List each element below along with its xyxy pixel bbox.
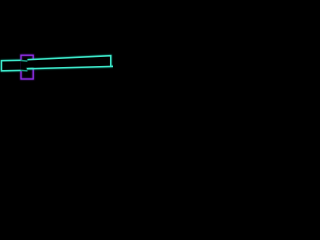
right track segment bottom edge with tail to image border	[27, 66, 113, 68]
right track segment top edge and right end cap (bright teal stroke)	[28, 56, 111, 67]
left track segment glow	[2, 60, 21, 70]
left track segment edges (bright teal stroke)	[2, 60, 21, 70]
right track segment body (opaque black fill)	[27, 56, 111, 69]
left track segment body (opaque black fill)	[2, 60, 21, 70]
joint highlight blob at segment junction (bottom)	[27, 67, 34, 70]
middle dim track segment top edge	[21, 60, 28, 63]
purple marker rectangle (glow underlay)	[21, 55, 33, 79]
middle dim track segment body (under marker, opaque black fill)	[21, 61, 28, 71]
middle dim track segment bottom edge	[21, 69, 28, 72]
right track segment glow	[27, 56, 113, 69]
purple marker rectangle (core stroke)	[21, 55, 33, 79]
